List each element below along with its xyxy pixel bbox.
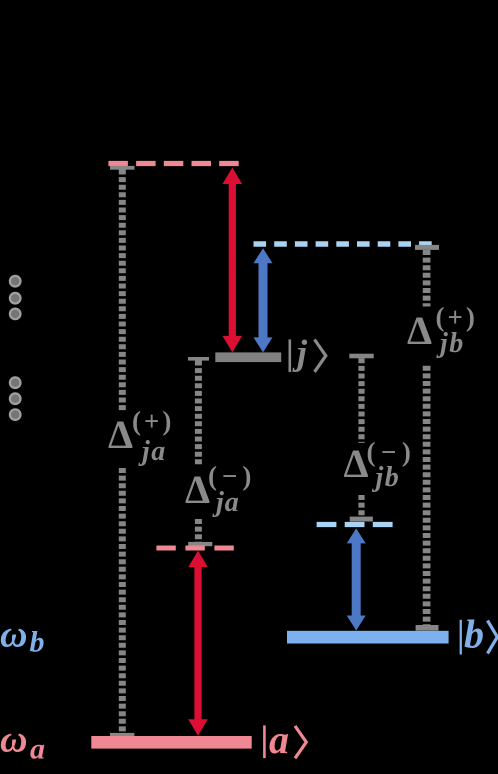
dotted span Delta_jb- lower segment — [358, 495, 364, 517]
dashed virtual level lower (light blue short) — [317, 522, 393, 527]
tick top of Delta_jb- span — [349, 354, 373, 359]
level |b> blue bar — [287, 631, 449, 644]
label Delta_ja- — [185, 461, 256, 518]
dashed virtual level (light blue) — [254, 241, 432, 246]
tick bottom of Delta_ja+ span — [110, 733, 134, 737]
label Delta_jb- — [344, 437, 417, 493]
tick top of Delta_ja+ span — [110, 166, 135, 170]
svg-text:a: a — [30, 733, 45, 766]
ellipsis dots upper group — [10, 276, 21, 319]
label |j> — [289, 333, 326, 373]
tick bottom of Delta_jb+ span — [416, 625, 439, 631]
svg-text:b: b — [30, 626, 45, 659]
label omega_b — [0, 613, 45, 658]
dotted span Delta_jb- upper segment — [358, 358, 364, 443]
svg-text:Δ: Δ — [108, 412, 133, 457]
tick top of Delta_jb+ span — [415, 245, 439, 250]
label |b> — [460, 612, 498, 657]
svg-text:Δ: Δ — [407, 308, 432, 353]
label Delta_ja+ — [108, 406, 174, 467]
blue arrow upper (omega_b to |j>) — [254, 248, 273, 352]
red arrow lower (omega_a drive) — [188, 551, 208, 736]
label Delta_jb+ — [407, 302, 478, 359]
svg-text:jb: jb — [372, 462, 401, 493]
dotted span Delta_ja- lower segment — [195, 519, 202, 542]
dotted span Delta_jb+ upper segment — [423, 250, 431, 307]
ellipsis dots lower group — [10, 377, 21, 420]
svg-text:a: a — [269, 717, 289, 762]
svg-text:ω: ω — [0, 613, 27, 655]
dotted span Delta_jb+ lower segment — [423, 366, 431, 625]
label |a> — [263, 717, 306, 762]
red arrow upper (omega pump to |j>) — [223, 168, 243, 353]
svg-text:ja: ja — [212, 487, 240, 518]
dotted span Delta_ja+ lower segment — [119, 468, 126, 733]
dotted span Delta_ja- upper segment — [195, 361, 202, 466]
level |j> gray bar — [215, 352, 281, 362]
level |a> pink bar — [91, 736, 251, 749]
svg-text:ja: ja — [138, 436, 167, 467]
dashed virtual level top (pink) — [108, 161, 238, 166]
blue arrow lower (omega_b drive) — [347, 528, 366, 630]
dotted span Delta_ja+ upper segment — [119, 170, 126, 412]
tick top of Delta_ja- span — [188, 357, 209, 361]
svg-text:(+): (+) — [132, 406, 174, 436]
svg-text:ω: ω — [0, 718, 27, 760]
label omega_a — [0, 718, 45, 765]
tick bottom of Delta_jb- span — [350, 517, 373, 522]
svg-text:jb: jb — [436, 328, 465, 359]
svg-text:Δ: Δ — [344, 441, 369, 486]
svg-text:b: b — [464, 612, 484, 657]
dashed virtual level lower (pink short) — [156, 546, 233, 551]
svg-text:Δ: Δ — [185, 467, 210, 512]
tick bottom of Delta_ja- span — [188, 542, 212, 546]
